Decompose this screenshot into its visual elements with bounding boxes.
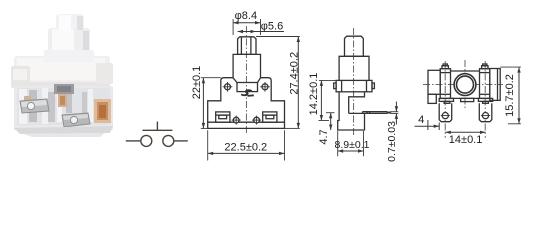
side view dimensions — [308, 73, 398, 162]
photo: amber contact center — [58, 94, 67, 107]
svg-text:14±0.1: 14±0.1 — [449, 134, 483, 146]
svg-text:φ8.4: φ8.4 — [235, 10, 257, 22]
dimension 22±0.1 — [191, 66, 221, 129]
photo: button collar — [44, 50, 94, 62]
photo: base bottom edge — [14, 126, 113, 134]
svg-text:22.5±0.2: 22.5±0.2 — [224, 141, 267, 153]
svg-text:0.7±0.03: 0.7±0.03 — [386, 121, 398, 162]
top view: left screw centerline — [444, 61, 446, 138]
svg-text:22±0.1: 22±0.1 — [191, 66, 203, 100]
svg-text:14.2±0.1: 14.2±0.1 — [308, 73, 320, 116]
front view: centerline — [245, 26, 247, 135]
top view: left block — [428, 70, 440, 94]
svg-text:15.7±0.2: 15.7±0.2 — [504, 74, 516, 117]
top view dimensions — [415, 67, 521, 146]
front view: plunger lines — [240, 37, 242, 55]
front view: body outline with ears and base — [208, 78, 285, 129]
schematic: left lead wire — [126, 140, 141, 142]
schematic: actuator stem — [156, 122, 158, 131]
schematic: right contact circle — [163, 135, 174, 146]
front view: tower-to-recess chamfers — [233, 78, 237, 83]
photo of push button switch — [11, 14, 113, 137]
photo: amber contact left — [24, 96, 31, 105]
side view: bracket left nub — [334, 83, 336, 89]
photo: base internal strips — [29, 90, 37, 122]
photo: button mid cylinder — [48, 28, 90, 58]
FRONT VIEW — [208, 26, 285, 135]
dimension 0.7±0.03 — [386, 102, 399, 162]
dimension 15.7±0.2 — [500, 67, 521, 124]
schematic: left contact circle — [141, 135, 152, 146]
photo: dark slot under button — [54, 84, 74, 94]
top view: left screw tower — [440, 69, 450, 99]
top view: right block — [490, 69, 500, 101]
dimension 14.2±0.1 — [308, 73, 339, 121]
top view: right screw tower — [480, 69, 490, 99]
schematic: push button symbol — [126, 122, 188, 147]
top view: left leg — [439, 103, 452, 121]
top view: horizontal centerline — [423, 84, 503, 86]
top view: body center band — [451, 70, 480, 72]
front view: left base hole — [232, 116, 241, 125]
top view: right leg — [479, 103, 492, 121]
photo: button top cap — [56, 14, 84, 30]
dimension phi 5.6 — [238, 21, 284, 34]
svg-text:4: 4 — [418, 114, 424, 126]
dimension 4.7 — [318, 113, 335, 145]
front view: base interior line — [208, 121, 285, 123]
top view: right leg shoulder — [478, 98, 492, 101]
top view: button inner circle — [457, 76, 474, 93]
front view: left ear hole — [223, 82, 233, 92]
top view: bottom center tab — [461, 98, 474, 101]
front view: button cap — [238, 37, 256, 55]
top view: button outer circle — [454, 74, 476, 96]
photo: left solder lug — [20, 99, 49, 113]
svg-text:8.9±0.1: 8.9±0.1 — [335, 139, 370, 151]
schematic: actuator bar — [143, 129, 173, 131]
dimension 4 — [415, 114, 440, 130]
svg-text:4.7: 4.7 — [318, 129, 330, 144]
side view: bracket band — [336, 80, 372, 91]
schematic: right lead wire — [174, 140, 188, 142]
side view: terminal pin — [349, 112, 390, 114]
side view: bracket right nub — [372, 83, 374, 89]
front view: center recess — [237, 83, 258, 92]
top view: left leg shoulder — [439, 98, 453, 101]
front view dimensions — [191, 10, 301, 160]
dimension 14±0.1 — [445, 131, 485, 147]
front view: tower — [233, 54, 260, 77]
photo: bracket right tab — [96, 63, 113, 84]
top view: vertical centerline — [464, 60, 466, 110]
dimension 8.9±0.1 — [335, 131, 370, 156]
front view: recess spring squiggle — [241, 90, 252, 95]
side view: button cap — [345, 36, 364, 56]
dimension 27.4±0.2 — [256, 37, 301, 129]
dimension phi 8.4 — [233, 10, 260, 35]
svg-text:27.4±0.2: 27.4±0.2 — [289, 52, 301, 95]
SIDE VIEW — [334, 28, 390, 136]
dimension 22.5±0.2 — [208, 130, 285, 160]
front view: right tab — [263, 112, 277, 122]
photo: main white body — [14, 56, 110, 94]
photo: bracket left tab — [11, 66, 30, 88]
TOP VIEW — [423, 60, 503, 138]
front view: right ear hole — [260, 82, 270, 92]
top view: right screw centerline — [484, 61, 486, 138]
front view: right base hole — [252, 116, 261, 125]
front view: left tab — [216, 112, 230, 122]
side view: centerline — [353, 28, 355, 136]
photo: amber contact right — [94, 99, 111, 123]
photo: base facet highlights — [19, 89, 27, 124]
side view: lower body outline — [338, 92, 365, 130]
photo: center solder lug — [62, 113, 90, 127]
side view: upper body — [339, 56, 369, 80]
photo: clear plastic base — [14, 86, 113, 130]
svg-text:φ5.6: φ5.6 — [261, 21, 283, 33]
